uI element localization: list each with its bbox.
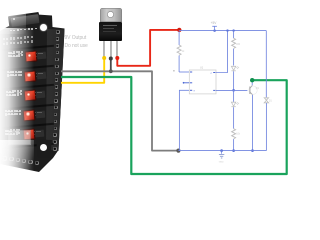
svg-text:1k: 1k [182, 51, 185, 53]
terminal screws column [56, 30, 60, 34]
mounting hole bottom [36, 139, 52, 158]
transistor TO-220 tab [100, 8, 122, 22]
LED LED1 [231, 66, 239, 90]
mounting hole top [40, 24, 47, 31]
pin 2 stub [183, 82, 192, 84]
terminal column shading [0, 0, 299, 185]
white fade overlays [0, 28, 34, 185]
mid column driver parts [37, 52, 47, 59]
node rail x233.6 [232, 29, 234, 31]
note text: 9V Output / Do not use [65, 34, 109, 51]
node R3 ground rail [232, 149, 235, 152]
ground symbol [219, 149, 225, 163]
silkscreen specks [9, 53, 15, 54]
power symbol +5V [211, 21, 218, 32]
node gray leg2 [109, 57, 113, 61]
pin1 label mark [173, 70, 174, 71]
svg-text:U1: U1 [200, 67, 204, 70]
wire right branch [265, 31, 267, 98]
transistor Q1 [249, 80, 260, 150]
channel separators [2, 45, 54, 52]
svg-text:D1: D1 [269, 101, 273, 103]
svg-text:Q1: Q1 [256, 88, 260, 90]
ground rail [178, 150, 266, 152]
wire gray leg2 drop [110, 59, 112, 72]
resistor R1 [177, 31, 185, 72]
board header pin grid [3, 38, 5, 40]
transistor legs [103, 41, 105, 57]
diode D1 [264, 98, 272, 103]
svg-text:GND: GND [219, 161, 224, 163]
node yellow leg1 [102, 56, 106, 60]
wire gray main [61, 71, 178, 150]
resistor R2 [232, 31, 241, 66]
svg-text:10k: 10k [236, 134, 241, 136]
red channel components [24, 51, 36, 62]
module pin row [10, 30, 12, 32]
node rail x227.5 [226, 29, 228, 31]
wire U1 Vcc to rail [216, 31, 228, 73]
+5V rail [179, 30, 266, 32]
wire D1 to ground rail [265, 103, 267, 151]
transistor tab hole [107, 11, 114, 18]
wires & schematic overlay [0, 0, 299, 185]
optocoupler U1 body [189, 67, 216, 94]
node base junction [232, 89, 235, 92]
channel pin grids [8, 52, 10, 54]
node red leg3 [115, 56, 119, 60]
wire R1 to U1 pin1 [179, 71, 189, 73]
wire U1 pin3 to ground rail [179, 90, 189, 150]
LED LED2 [231, 90, 239, 106]
transistor body marking [103, 25, 117, 26]
node collector green [250, 78, 254, 82]
node gray junction [109, 69, 113, 73]
node emitter ground rail [251, 149, 254, 152]
resistor R3 [232, 107, 241, 150]
wire yellow [61, 58, 104, 83]
top module on board [8, 12, 41, 34]
svg-text:220: 220 [236, 44, 241, 46]
PCB module photo silhouette [0, 0, 299, 185]
svg-text:+5V: +5V [211, 21, 218, 25]
bottom terminal screws row [3, 156, 7, 160]
wire base U1 to Q1 [216, 89, 247, 91]
washed relay box lower-left [8, 130, 31, 145]
wire red [117, 30, 179, 66]
node red rail [177, 28, 181, 32]
node gray bottom rail [176, 149, 180, 153]
transistor body [99, 22, 122, 41]
wire green loop [61, 77, 287, 174]
